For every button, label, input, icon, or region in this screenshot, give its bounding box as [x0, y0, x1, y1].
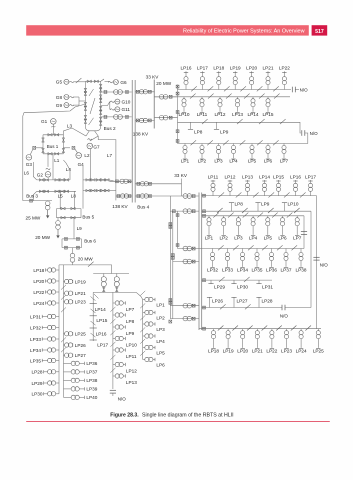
- 138/33 transformer row 1: [135, 91, 154, 93]
- svg-text:LP16: LP16: [181, 66, 192, 71]
- svg-text:G11: G11: [122, 107, 131, 112]
- 138kV bus: [131, 80, 133, 203]
- svg-text:LP5: LP5: [264, 235, 273, 240]
- svg-text:LP34: LP34: [237, 267, 248, 272]
- load point LP18: [213, 329, 215, 331]
- load point LP23: [64, 301, 65, 303]
- feeder 2 switches: [190, 94, 196, 99]
- breaker diamonds station top tie: [87, 80, 91, 83]
- load point LP1: [143, 299, 145, 301]
- svg-text:25 MW: 25 MW: [26, 215, 41, 220]
- 138/33 transformer row 2: [135, 120, 154, 122]
- svg-text:517: 517: [315, 29, 324, 35]
- load point LP17: [201, 85, 203, 90]
- svg-text:LP28: LP28: [262, 299, 273, 304]
- step-up row 1 to 138kV bus: [101, 91, 132, 93]
- load point LP8: [113, 314, 115, 316]
- svg-text:LP7: LP7: [280, 159, 289, 164]
- svg-text:LP25: LP25: [75, 332, 86, 337]
- svg-text:LP8: LP8: [235, 201, 244, 206]
- load point LP7: [283, 144, 285, 146]
- svg-text:LP17: LP17: [197, 66, 208, 71]
- svg-text:G1: G1: [41, 119, 48, 124]
- bus 6 source transformer 20MW: [72, 248, 74, 254]
- load point LP22: [283, 85, 285, 90]
- page number box: [312, 25, 328, 35]
- svg-text:LP37: LP37: [86, 370, 97, 375]
- svg-text:LP6: LP6: [156, 362, 165, 367]
- feeder C7: [199, 328, 321, 330]
- svg-text:Bus 6: Bus 6: [84, 238, 96, 243]
- C3 end loop with n/o: [303, 216, 305, 249]
- bus 5: [57, 208, 82, 210]
- svg-text:LP19: LP19: [230, 66, 241, 71]
- feeder C6: [202, 307, 282, 309]
- svg-text:G3: G3: [26, 162, 33, 167]
- header bar: [26, 25, 309, 35]
- feeder C5 switches: [219, 277, 225, 282]
- svg-text:LP30: LP30: [237, 284, 248, 289]
- load point LP10: [183, 97, 185, 99]
- load point LP1: [208, 216, 210, 218]
- line L8 vertical: [74, 191, 76, 208]
- svg-text:N/O: N/O: [310, 131, 319, 136]
- station top tie: [85, 80, 100, 82]
- load point LP5: [143, 347, 145, 349]
- svg-text:LP3: LP3: [156, 327, 165, 332]
- feeder C3: [202, 215, 304, 217]
- svg-text:LP26: LP26: [75, 343, 86, 348]
- svg-text:138 KV: 138 KV: [133, 132, 149, 137]
- feeder 3: [178, 121, 292, 123]
- svg-text:LP17: LP17: [97, 342, 108, 347]
- line L5 vertical: [59, 191, 61, 208]
- load point LP36: [64, 362, 72, 364]
- sub transformer 1: [103, 274, 105, 277]
- load point LP15: [267, 97, 269, 99]
- load point LP30 stub: [233, 280, 235, 284]
- load point LP22: [271, 329, 273, 331]
- svg-text:LP12: LP12: [215, 112, 226, 117]
- feeder riser: [177, 85, 179, 144]
- svg-text:LP9: LP9: [126, 331, 135, 336]
- svg-text:LP32: LP32: [207, 267, 218, 272]
- svg-text:LP31: LP31: [262, 284, 273, 289]
- svg-text:Bus 4: Bus 4: [137, 205, 149, 210]
- svg-text:33 KV: 33 KV: [146, 75, 160, 80]
- bus 3 load arrow: [47, 210, 49, 216]
- load point LP31 stub: [258, 280, 260, 284]
- svg-text:LP24: LP24: [296, 348, 307, 353]
- svg-text:LP15: LP15: [273, 174, 284, 179]
- wire to L7 vertical: [109, 180, 115, 181]
- C6 n/o to inner loop: [281, 305, 283, 311]
- svg-text:LP40: LP40: [86, 395, 97, 400]
- svg-text:LP11: LP11: [197, 112, 208, 117]
- svg-text:LP1: LP1: [181, 159, 190, 164]
- line L1 vertical: [52, 154, 54, 180]
- svg-text:LP24: LP24: [33, 301, 44, 306]
- svg-text:LP1: LP1: [205, 235, 214, 240]
- load point LP39: [64, 388, 72, 390]
- line L9: [73, 218, 75, 239]
- sub bus lower: [93, 291, 136, 293]
- svg-text:33 KV: 33 KV: [174, 173, 188, 178]
- load point LP4: [252, 216, 254, 218]
- svg-text:LP21: LP21: [263, 66, 274, 71]
- generator G10: [101, 102, 110, 106]
- svg-text:N/O: N/O: [280, 313, 289, 318]
- svg-text:LP35: LP35: [30, 358, 41, 363]
- svg-text:LP18: LP18: [213, 66, 224, 71]
- svg-text:Figure 28.3.: Figure 28.3.: [110, 413, 139, 419]
- svg-text:LP9: LP9: [220, 130, 229, 135]
- station switch slashes: [89, 89, 94, 96]
- load point LP7: [296, 216, 298, 218]
- inner loop right: [310, 211, 312, 307]
- step-up row 2 to 138kV bus: [101, 116, 132, 118]
- svg-text:LP25: LP25: [313, 348, 324, 353]
- svg-text:LP6: LP6: [278, 235, 287, 240]
- svg-text:LP31: LP31: [30, 314, 41, 319]
- svg-text:20 MW: 20 MW: [156, 81, 171, 86]
- line L3 to station: [63, 128, 86, 136]
- load point LP19: [227, 329, 229, 331]
- svg-text:LP21: LP21: [75, 291, 86, 296]
- station right vertical: [100, 81, 102, 127]
- load point LP13: [113, 375, 115, 377]
- bottom rule: [26, 420, 330, 422]
- svg-text:LP26: LP26: [212, 299, 223, 304]
- svg-text:LP13: LP13: [232, 112, 243, 117]
- sub bus upper: [93, 273, 129, 275]
- svg-text:LP4: LP4: [156, 339, 165, 344]
- normally open point feeder1: [291, 87, 293, 93]
- svg-text:LP29: LP29: [32, 381, 43, 386]
- load point LP37: [285, 249, 287, 253]
- line L2 vertical: [89, 149, 91, 180]
- load point LP2: [201, 144, 203, 146]
- svg-text:LP22: LP22: [279, 66, 290, 71]
- wire G1 to bus 1: [52, 124, 54, 135]
- wire G9: [74, 104, 79, 106]
- load point LP19: [64, 281, 65, 283]
- svg-text:LP5: LP5: [156, 350, 165, 355]
- svg-text:LP4: LP4: [229, 159, 238, 164]
- feeder 3 switches: [202, 119, 208, 124]
- load point LP38: [64, 379, 72, 381]
- load point LP9 stub: [216, 122, 218, 129]
- svg-text:Reliability of Electric Power: Reliability of Electric Power Systems: A…: [183, 29, 305, 35]
- load point LP4: [143, 335, 145, 337]
- 33/11 supply row5: [170, 305, 199, 307]
- load point LP32: [212, 249, 214, 253]
- 33/11 supply row4: [173, 261, 199, 263]
- load point LP21: [256, 329, 258, 331]
- svg-text:138 KV: 138 KV: [112, 204, 128, 209]
- load point LP14: [252, 97, 254, 99]
- 33kV loop verticals: [169, 196, 171, 319]
- wire G8: [74, 96, 79, 98]
- svg-text:LP27: LP27: [75, 353, 86, 358]
- svg-text:LP10: LP10: [288, 201, 299, 206]
- load point LP12: [229, 192, 231, 196]
- svg-text:LP35: LP35: [252, 267, 263, 272]
- load point LP20: [251, 85, 253, 90]
- svg-text:LP36: LP36: [266, 267, 277, 272]
- 138/33 row1 bus4: [135, 183, 181, 185]
- feeder C1 switches: [219, 192, 225, 197]
- svg-text:Bus 3: Bus 3: [26, 193, 38, 198]
- svg-text:LP9: LP9: [261, 201, 270, 206]
- svg-text:LP34: LP34: [30, 348, 41, 353]
- svg-text:LP27: LP27: [237, 299, 248, 304]
- feeder C4 switches: [218, 245, 224, 250]
- svg-text:L1: L1: [54, 158, 60, 163]
- breakers on station verticals: [84, 88, 87, 92]
- svg-text:L8: L8: [71, 193, 77, 198]
- bus 1 ring bottom: [43, 153, 63, 155]
- load point LP37: [64, 371, 72, 373]
- svg-text:LP22: LP22: [33, 290, 44, 295]
- svg-text:Single line diagram of the RBT: Single line diagram of the RBTS at HLII: [142, 413, 234, 419]
- svg-text:LP12: LP12: [225, 174, 236, 179]
- 33/11 supply row2: [170, 210, 199, 212]
- load point LP18: [218, 85, 220, 90]
- svg-text:LP21: LP21: [252, 348, 263, 353]
- svg-text:LP11: LP11: [208, 174, 219, 179]
- load point LP11: [113, 349, 115, 351]
- load point LP21: [64, 292, 65, 294]
- load point LP17: [310, 192, 312, 196]
- load point LP16 stub: [90, 327, 97, 329]
- feeder C1: [202, 195, 317, 197]
- svg-text:LP15: LP15: [96, 318, 107, 323]
- bus 3 line: [23, 200, 52, 202]
- svg-text:LP6: LP6: [264, 159, 273, 164]
- svg-text:LP32: LP32: [30, 325, 41, 330]
- col3 backbone link: [92, 292, 94, 341]
- feeder 4: [178, 143, 308, 145]
- load point LP11: [212, 192, 214, 196]
- svg-text:LP30: LP30: [32, 392, 43, 397]
- transmission line pair bus1-bus3: [37, 179, 70, 181]
- svg-text:LP23: LP23: [75, 300, 86, 305]
- bus 3 load transformer: [47, 200, 49, 202]
- load point LP3: [143, 323, 145, 325]
- svg-text:LP14: LP14: [259, 174, 270, 179]
- svg-text:LP11: LP11: [126, 354, 137, 359]
- outer loop right with n/o: [316, 196, 318, 329]
- svg-text:N/O: N/O: [300, 88, 309, 93]
- load point LP25: [64, 333, 65, 335]
- feeder 4 switches: [191, 140, 197, 145]
- svg-text:LP23: LP23: [281, 348, 292, 353]
- svg-text:L7: L7: [107, 153, 113, 158]
- bus 6: [62, 238, 82, 240]
- load point LP8 stub: [231, 203, 233, 212]
- load point LP14: [264, 192, 266, 196]
- load point LP20: [242, 329, 244, 331]
- line L4 bend: [63, 160, 70, 180]
- svg-text:LP29: LP29: [214, 284, 225, 289]
- feeder C7 switches: [218, 326, 224, 331]
- bus 5 load arrow: [57, 230, 59, 236]
- load point LP9 stub: [257, 203, 259, 212]
- line from L7 row2: [116, 195, 132, 197]
- svg-text:G10: G10: [122, 99, 131, 104]
- line bends near bus3: [33, 162, 37, 180]
- svg-text:LP13: LP13: [242, 174, 253, 179]
- load point LP35: [256, 249, 258, 253]
- feeder C2: [202, 210, 311, 212]
- gray tie vertical: [82, 166, 84, 209]
- svg-text:LP16: LP16: [96, 331, 107, 336]
- 11kV bus: [198, 193, 200, 331]
- svg-text:LP33: LP33: [222, 267, 233, 272]
- svg-text:LP18: LP18: [208, 348, 219, 353]
- svg-text:N/O: N/O: [320, 262, 329, 267]
- svg-text:LP3: LP3: [214, 159, 223, 164]
- svg-text:LP16: LP16: [290, 174, 301, 179]
- load point LP26: [64, 344, 65, 346]
- bus6 dist supply top: [72, 262, 74, 265]
- svg-text:LP8: LP8: [194, 130, 203, 135]
- generator G6: [101, 79, 104, 81]
- svg-text:N/O: N/O: [118, 396, 127, 401]
- load point LP16: [295, 192, 297, 196]
- svg-text:LP10: LP10: [179, 112, 190, 117]
- load point LP34: [242, 249, 244, 253]
- col2 switches: [61, 285, 66, 290]
- svg-text:LP38: LP38: [296, 267, 307, 272]
- feeder C5: [202, 279, 272, 281]
- svg-text:LP14: LP14: [95, 307, 106, 312]
- load point LP5: [251, 144, 253, 146]
- bus 1 ring top: [43, 134, 63, 136]
- load point LP3: [218, 144, 220, 146]
- svg-text:LP3: LP3: [234, 235, 243, 240]
- sub transformer 2: [116, 274, 118, 277]
- 33/11 supply transformer row 1: [154, 96, 177, 98]
- load point LP10 stub: [284, 203, 286, 212]
- svg-text:LP12: LP12: [126, 369, 137, 374]
- load point LP16: [185, 85, 187, 90]
- bus 1 ring sides: [42, 135, 44, 154]
- load point LP19: [234, 85, 236, 90]
- svg-text:Bus 5: Bus 5: [82, 214, 94, 219]
- svg-text:LP5: LP5: [248, 159, 257, 164]
- svg-text:G8: G8: [56, 95, 63, 100]
- station leg to L3: [86, 131, 89, 136]
- feeder 1 switches: [191, 86, 197, 91]
- svg-text:Bus 1: Bus 1: [47, 144, 59, 149]
- svg-text:LP20: LP20: [246, 66, 257, 71]
- svg-text:LP20: LP20: [237, 348, 248, 353]
- col2 backbone: [63, 265, 65, 398]
- wire G5 to station: [74, 81, 86, 83]
- svg-text:G5: G5: [56, 80, 63, 85]
- svg-text:LP2: LP2: [220, 235, 229, 240]
- svg-text:LP38: LP38: [86, 378, 97, 383]
- load point LP21: [267, 85, 269, 90]
- line L7 top: [98, 136, 116, 200]
- load point LP4: [233, 144, 235, 146]
- load point LP5: [267, 216, 269, 218]
- col4 n/o bottom: [110, 389, 116, 391]
- col5 backbone link: [136, 292, 142, 359]
- load point LP40: [64, 396, 72, 398]
- load point LP36: [271, 249, 273, 253]
- load point LP3: [237, 216, 239, 218]
- feeder C6 switches: [220, 304, 226, 309]
- load point LP23: [286, 329, 288, 331]
- 33kV point vertical: [181, 179, 183, 197]
- load point LP14 stub: [90, 303, 97, 305]
- svg-text:Bus 2: Bus 2: [104, 126, 116, 131]
- 33/11 supply transformer row 2: [154, 117, 177, 119]
- 138/33 row2 bus4 into 11kV supply: [135, 195, 199, 197]
- svg-text:L2: L2: [84, 153, 90, 158]
- load point LP33: [227, 249, 229, 253]
- supply drop right: [110, 265, 112, 274]
- load point LP28 stub: [258, 297, 260, 307]
- load point LP2: [143, 312, 145, 314]
- load point LP15: [278, 192, 280, 196]
- svg-text:LP4: LP4: [249, 235, 258, 240]
- feeder C4: [199, 248, 304, 250]
- load point LP15 stub: [90, 315, 97, 317]
- col1 backbone: [58, 265, 60, 394]
- load point LP12: [219, 97, 221, 99]
- svg-text:LP17: LP17: [305, 174, 316, 179]
- svg-text:LP10: LP10: [126, 343, 137, 348]
- 33kV bus top: [153, 80, 155, 129]
- svg-text:LP33: LP33: [30, 337, 41, 342]
- svg-text:20 MW: 20 MW: [35, 235, 50, 240]
- load point LP17 stub: [90, 339, 97, 341]
- svg-text:LP22: LP22: [266, 348, 277, 353]
- load point LP24: [300, 329, 302, 331]
- svg-text:G2: G2: [37, 172, 44, 177]
- feeder C3 switches: [213, 213, 219, 218]
- svg-text:20 MW: 20 MW: [78, 256, 93, 261]
- load point LP27: [64, 354, 65, 356]
- 33/11 supply row3: [178, 248, 200, 250]
- station leg to G7/L7: [95, 131, 99, 136]
- feeder 1 top: [178, 89, 292, 91]
- svg-text:LP2: LP2: [156, 315, 165, 320]
- svg-text:LP15: LP15: [263, 112, 274, 117]
- col5 switches: [140, 291, 145, 296]
- svg-text:L9: L9: [77, 226, 83, 231]
- left tie line: [23, 104, 86, 201]
- load point LP8 stub: [190, 122, 192, 129]
- col4 backbone link: [112, 292, 114, 389]
- svg-text:LP2: LP2: [198, 159, 207, 164]
- svg-text:LP18: LP18: [33, 268, 44, 273]
- load point LP26 stub: [209, 297, 211, 307]
- load point LP11: [201, 97, 203, 99]
- transmission line pair to bus4: [85, 179, 109, 181]
- svg-text:G9: G9: [56, 103, 63, 108]
- svg-text:LP20: LP20: [33, 279, 44, 284]
- load point LP13: [237, 97, 239, 99]
- load point LP9: [113, 326, 115, 328]
- load point LP7: [113, 302, 115, 304]
- load point LP6: [282, 216, 284, 218]
- load point LP38: [300, 249, 302, 253]
